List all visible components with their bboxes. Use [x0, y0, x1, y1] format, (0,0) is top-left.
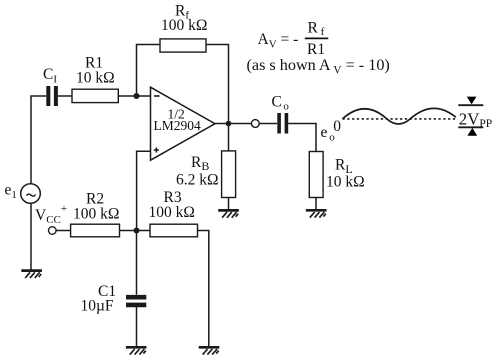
- svg-text:(as s hown A V = - 10): (as s hown A V = - 10): [247, 56, 390, 77]
- svg-text:Co: Co: [272, 93, 290, 112]
- capacitor C1: [126, 297, 146, 305]
- resistor R1: [72, 89, 118, 102]
- svg-text:10µF: 10µF: [81, 298, 114, 315]
- wire: R2 to bias junction: [120, 230, 151, 232]
- wire: C1 to ground: [136, 307, 138, 346]
- op-amp noninverting input marker: [154, 147, 159, 152]
- wire: C_I to R1: [58, 95, 72, 97]
- svg-text:R f: R f: [308, 19, 325, 38]
- wire: R3 right to ground: [198, 231, 209, 347]
- svg-text:6.2 kΩ: 6.2 kΩ: [176, 172, 219, 189]
- node: bias junction R2 R3 C1: [134, 228, 140, 234]
- svg-text:LM2904: LM2904: [154, 118, 202, 133]
- resistor RL: [309, 152, 323, 210]
- resistor R2: [71, 224, 120, 237]
- dimension marker 2Vpp bars and arrows: [458, 97, 483, 136]
- op-amp U1 1/2 LM2904 triangle: [151, 87, 216, 160]
- svg-text:2VPP: 2VPP: [459, 110, 492, 131]
- svg-text:10 kΩ: 10 kΩ: [326, 173, 365, 190]
- terminal: Vcc open circle: [49, 227, 57, 235]
- ground: below e1: [21, 271, 42, 278]
- ground: below R3 branch: [199, 347, 220, 354]
- wire: Co to RL: [288, 124, 316, 152]
- node: inverting input junction: [134, 93, 140, 99]
- svg-text:AV = -: AV = -: [258, 31, 299, 51]
- svg-text:e1: e1: [5, 182, 17, 201]
- wire: R1 to inverting input: [118, 95, 150, 97]
- wire: feedback right branch down to output node: [206, 45, 229, 124]
- svg-text:CI: CI: [43, 66, 57, 85]
- capacitor C_I: [48, 86, 56, 106]
- waveform: output sine: [343, 108, 456, 124]
- terminal: output open circle: [251, 120, 259, 128]
- svg-text:100 kΩ: 100 kΩ: [73, 205, 119, 222]
- wire: feedback left branch: [137, 45, 161, 97]
- wire: op-amp output to coupling cap: [215, 123, 251, 125]
- equation Av = -Rf/R1: [258, 19, 329, 58]
- wire: noninverting input down to bias junction: [137, 151, 151, 230]
- op-amp inverting input marker: [154, 95, 160, 97]
- waveform: zero baseline dotted: [343, 118, 456, 120]
- svg-text:RB: RB: [191, 154, 209, 173]
- wire: input net from e1 up and across to C_I: [31, 96, 46, 184]
- resistor Rf: [160, 39, 206, 52]
- ground: below RB: [218, 210, 239, 217]
- ground: below RL: [306, 210, 327, 217]
- svg-text:10 kΩ: 10 kΩ: [76, 70, 115, 87]
- resistor R3: [150, 224, 198, 237]
- svg-text:VCC+: VCC+: [35, 203, 67, 226]
- wire: terminal to Co: [259, 123, 277, 125]
- resistor RB: [222, 124, 236, 210]
- wire: Vcc to R2: [56, 230, 71, 232]
- node: output junction: [226, 121, 232, 127]
- svg-text:100 kΩ: 100 kΩ: [149, 204, 195, 221]
- wire: bias junction down to C1: [136, 231, 138, 295]
- svg-text:100 kΩ: 100 kΩ: [161, 17, 207, 34]
- ground: below C1: [126, 347, 147, 354]
- svg-text:0: 0: [333, 118, 341, 135]
- capacitor Co: [279, 113, 286, 134]
- source e1 (AC): [21, 184, 41, 204]
- wire: e1 to ground: [30, 203, 32, 269]
